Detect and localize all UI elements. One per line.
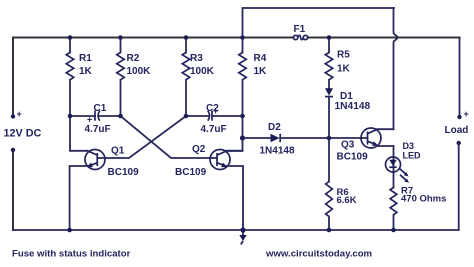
svg-text:+: + <box>87 115 92 125</box>
svg-text:D3: D3 <box>403 141 415 151</box>
svg-text:100K: 100K <box>190 66 215 77</box>
svg-text:1K: 1K <box>79 66 93 77</box>
svg-text:R4: R4 <box>254 53 267 64</box>
wire top rail left of fuse <box>13 37 293 39</box>
transistor Q2 <box>175 144 243 230</box>
svg-text:BC109: BC109 <box>108 167 140 178</box>
node top rail R3 <box>184 35 189 40</box>
wire cross-couple R2 to Q2 base <box>121 116 218 158</box>
node bottom R6 <box>327 228 332 233</box>
svg-text:12V DC: 12V DC <box>4 128 42 140</box>
diode D1 <box>325 88 371 138</box>
node C2 left <box>184 114 189 119</box>
node battery minus <box>11 148 15 152</box>
node D2 right <box>327 136 332 141</box>
node top rail R4 <box>240 35 245 40</box>
svg-text:6.6K: 6.6K <box>337 195 357 206</box>
wire bottom rail <box>13 229 458 231</box>
ground <box>239 230 246 245</box>
node bottom ground <box>240 227 245 232</box>
svg-text:1K: 1K <box>337 64 351 75</box>
fuse F1 <box>293 24 307 40</box>
node C1 right <box>118 114 123 119</box>
node load minus <box>457 141 461 145</box>
resistor R5 <box>325 38 350 89</box>
svg-text:1K: 1K <box>254 66 268 77</box>
svg-text:R3: R3 <box>190 53 203 64</box>
node load plus <box>457 115 461 119</box>
resistor R1 <box>66 38 92 117</box>
node C1 left <box>68 114 73 119</box>
node C2 right <box>240 114 245 119</box>
svg-text:F1: F1 <box>294 24 306 35</box>
svg-text:+: + <box>213 106 218 116</box>
LED D3 <box>386 141 422 188</box>
svg-text:C1: C1 <box>94 103 107 114</box>
svg-text:R1: R1 <box>79 53 92 64</box>
node D2 left <box>240 135 245 140</box>
svg-text:D2: D2 <box>268 122 281 133</box>
svg-text:+: + <box>464 109 469 119</box>
wire top rail right of fuse <box>308 37 460 39</box>
svg-text:470 Ohms: 470 Ohms <box>401 194 446 205</box>
svg-text:LED: LED <box>403 151 422 161</box>
svg-text:1N4148: 1N4148 <box>335 101 371 112</box>
svg-text:Load: Load <box>445 125 469 136</box>
resistor R7 <box>390 186 446 231</box>
resistor R4 <box>227 38 267 151</box>
svg-text:100K: 100K <box>127 66 152 77</box>
wire cross-couple R3 to Q1 base <box>97 116 186 158</box>
resistor R6 <box>326 138 357 230</box>
diode D2 <box>243 122 330 157</box>
transistor Q3 <box>337 128 394 163</box>
svg-text:Q1: Q1 <box>111 146 125 157</box>
svg-text:BC109: BC109 <box>175 167 207 178</box>
wire left rail positive <box>12 38 14 117</box>
wire left rail negative <box>12 150 14 230</box>
wire right rail negative <box>458 143 460 230</box>
svg-text:BC109: BC109 <box>337 152 369 163</box>
capacitor C2 <box>186 103 243 135</box>
svg-text:4.7uF: 4.7uF <box>85 124 111 135</box>
svg-text:4.7uF: 4.7uF <box>201 124 227 135</box>
node top rail R1 <box>68 35 73 40</box>
capacitor C1 <box>70 103 121 135</box>
svg-text:Q3: Q3 <box>341 140 355 151</box>
svg-text:+: + <box>17 109 22 119</box>
resistor R2 <box>117 38 151 117</box>
node bottom Q1 emitter <box>67 228 72 233</box>
wire Q3 base <box>329 137 368 139</box>
wire Q3 collector riser with hop over rail <box>394 8 398 129</box>
resistor R3 <box>182 38 214 117</box>
wire bypass loop top <box>243 8 395 38</box>
wire right rail positive <box>459 38 461 118</box>
svg-text:Q2: Q2 <box>192 144 206 155</box>
node battery plus <box>11 114 15 118</box>
svg-text:www.circuitstoday.com: www.circuitstoday.com <box>265 249 372 260</box>
transistor Q1 <box>70 116 139 230</box>
node top rail R5 <box>327 35 332 40</box>
node bottom R7 <box>391 228 396 233</box>
svg-text:1N4148: 1N4148 <box>260 146 295 157</box>
svg-text:R2: R2 <box>127 53 140 64</box>
node top rail R2 <box>118 35 123 40</box>
svg-text:R5: R5 <box>337 50 350 61</box>
svg-text:Fuse with status indicator: Fuse with status indicator <box>12 249 131 260</box>
